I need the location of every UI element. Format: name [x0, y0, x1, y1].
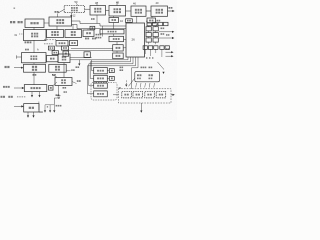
- block 22a: [113, 45, 124, 51]
- block 31 AGC: [14, 30, 46, 41]
- bus tuner to 26 lower: [72, 25, 127, 29]
- block 16 chroma circuit: [65, 30, 82, 38]
- hanging strokes right: [145, 49, 162, 59]
- wires mem to right: [107, 71, 109, 79]
- labels 41 and 43: [33, 74, 56, 76]
- block 60b: [52, 51, 58, 55]
- arrow out right mid: [159, 34, 174, 39]
- marks below 26: [120, 67, 124, 71]
- block tiny on bus: [90, 26, 95, 29]
- ladder marks right col: [161, 28, 165, 35]
- wire into dashed region: [113, 94, 118, 96]
- block 45a: [94, 83, 108, 88]
- block 38 deflection: [24, 85, 47, 92]
- block 58a: [56, 40, 68, 46]
- arrow down mid: [76, 60, 81, 68]
- wire 33 left stub: [17, 55, 22, 58]
- block 18 sync separator: [83, 30, 94, 37]
- dashed block 3: [145, 91, 155, 98]
- block 26 main IC: [126, 23, 145, 57]
- arrow out of dashed region: [171, 94, 175, 96]
- block 47 dual-sound demodulator: [90, 1, 106, 15]
- dashed container 45: [91, 82, 122, 100]
- wire antenna box down: [33, 28, 35, 31]
- scan noise texture: [0, 0, 177, 120]
- block 14 video detector: [47, 30, 64, 38]
- block 68 flyback: [55, 78, 72, 86]
- block 12 tuner and IF: [49, 15, 76, 26]
- block mem1b: [109, 69, 114, 73]
- label under 31: [25, 41, 32, 43]
- arrow input to 34: [5, 66, 24, 69]
- wire 44 down: [113, 23, 115, 30]
- power rail cluster: [44, 94, 60, 112]
- block 45b: [94, 91, 108, 97]
- label antenna input: [10, 21, 23, 23]
- label 40b on bus: [91, 18, 95, 20]
- wire 31 down to 33: [33, 40, 35, 53]
- block 50 carrier circuit: [64, 0, 84, 13]
- wire 46 to 40: [146, 10, 151, 12]
- marks right of 42: [157, 20, 161, 22]
- label 49 diagonal: [64, 80, 81, 93]
- labels above block row: [141, 67, 153, 69]
- bus 66 joins wrap: [70, 58, 92, 60]
- wire leads around block 50: [58, 3, 90, 17]
- labels under 18: [85, 38, 96, 40]
- ground below flyback: [56, 86, 67, 107]
- speck top-left: [14, 8, 16, 9]
- block small above 26: [126, 19, 133, 23]
- wire 40 down: [151, 16, 153, 18]
- block mem1: [94, 68, 108, 74]
- wire 74 to 24b: [113, 34, 115, 36]
- svg-text:26: 26: [132, 38, 136, 42]
- block 66 AV switch: [58, 54, 70, 63]
- block 36 sound demod: [49, 64, 66, 72]
- ladder column 1: [146, 26, 151, 45]
- wire into 16 top: [72, 25, 74, 30]
- wire 24 to 22a: [116, 42, 118, 45]
- bus wrap nested wires: [87, 57, 138, 94]
- wire 46 down to 26: [136, 16, 138, 23]
- diagonal into flyback: [52, 75, 57, 78]
- block 48 sound processor: [109, 1, 126, 16]
- wire 40 output with arrow: [168, 7, 175, 12]
- wire 22a to 26: [123, 47, 126, 49]
- label lower left: [1, 96, 26, 98]
- wire tuner top label: [55, 11, 59, 17]
- labels left of 24: [96, 34, 102, 39]
- dashed wire down with arrow: [125, 80, 127, 86]
- block 24 matrix: [109, 36, 124, 41]
- row tiny boxes top right: [147, 22, 168, 26]
- block 74 delay line: [100, 29, 124, 34]
- wire 48 to 46: [126, 10, 132, 12]
- block mem2b: [109, 76, 114, 80]
- arrow input to 39: [14, 105, 24, 107]
- label right of 36: [66, 69, 74, 71]
- wire 68 up: [63, 63, 65, 78]
- dashed block 4: [156, 91, 166, 98]
- block 58b: [70, 40, 78, 45]
- dashed region outline: [119, 89, 172, 103]
- block 44 below 48: [109, 18, 123, 23]
- zigzag wire right: [158, 62, 165, 74]
- block 39 audio output: [24, 104, 39, 112]
- bus mid to 26: [69, 49, 113, 51]
- wire into 18 top: [87, 29, 89, 30]
- block 62 symbol: [63, 51, 69, 56]
- dash marks row: [44, 43, 53, 44]
- wire 33 down to 34: [33, 63, 35, 65]
- block 40 output stage: [151, 1, 168, 16]
- wire 47 down to bus: [96, 15, 98, 24]
- row tiny boxes 2: [143, 46, 169, 50]
- arrow down from dashed region: [140, 103, 142, 113]
- arrows below 38: [31, 92, 41, 98]
- wire 47 to 48: [106, 10, 110, 12]
- labels 49a and A: [25, 48, 39, 51]
- block 60c: [61, 46, 68, 50]
- block 42 below 40: [146, 18, 155, 23]
- dashed wire mid: [44, 39, 56, 41]
- arrow out right upper: [159, 31, 174, 33]
- wire 34 down to 38: [33, 72, 35, 84]
- block 64: [47, 56, 59, 62]
- wire 24 to 26: [124, 39, 127, 41]
- hatch ticks below keyboard: [136, 83, 155, 88]
- wire 26 to ladder: [145, 31, 147, 33]
- wire 38b diagonal: [53, 82, 57, 86]
- wire 22a to 22b: [116, 51, 118, 53]
- block 67 small: [84, 52, 90, 58]
- block 34 picture IF: [24, 64, 46, 72]
- block mem2: [94, 75, 108, 81]
- block 22b: [113, 53, 124, 59]
- zigzag wire left: [129, 79, 135, 87]
- dashed block 2: [133, 91, 143, 98]
- bus tuner to 26 upper: [72, 21, 127, 26]
- dashed block 1: [122, 91, 132, 98]
- arrow input to 38: [3, 86, 24, 89]
- ladder column 2: [153, 26, 158, 45]
- wire antenna to tuner: [44, 22, 49, 24]
- block 33 power supply: [22, 53, 47, 63]
- wire 74 to 24: [102, 26, 104, 37]
- arrows below 39: [27, 102, 43, 118]
- block 60a: [48, 46, 54, 50]
- block 38b small: [49, 86, 54, 91]
- block row keyboard: [135, 72, 160, 82]
- block antenna unit: [25, 19, 44, 28]
- arrows out lower right: [166, 48, 174, 57]
- wire 48 down: [113, 16, 115, 18]
- wire tuner down to 14: [56, 26, 58, 30]
- block 46 audio amplifier: [131, 2, 146, 17]
